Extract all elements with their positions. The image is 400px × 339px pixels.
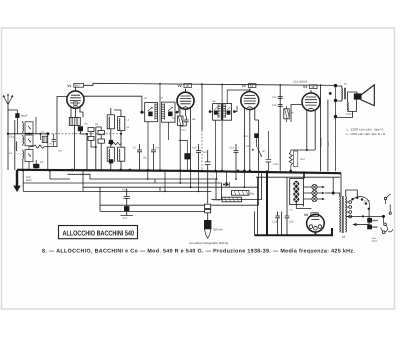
node dot x121 tuning (120, 133, 122, 135)
thick bottom line (255, 228, 333, 235)
svg-text:C19: C19 (289, 221, 294, 224)
svg-text:C14: C14 (244, 135, 249, 138)
node dot x72 bus (71, 169, 74, 172)
capacitor C16 (278, 105, 283, 107)
svg-text:inter.: inter. (372, 237, 377, 240)
wire secondary to voice coil (348, 92, 357, 111)
wire rail vertical x100 (99, 187, 101, 211)
svg-text:T1: T1 (344, 82, 348, 86)
node T2 right (233, 110, 236, 113)
selector lever (353, 197, 370, 209)
svg-text:C15: C15 (272, 96, 277, 99)
svg-text:V1: V1 (67, 84, 71, 88)
node T1 left (140, 111, 143, 114)
svg-text:78: 78 (186, 84, 190, 88)
capacitor C14 blob (255, 134, 259, 138)
wire T2 bottoms (215, 120, 217, 171)
capacitor stack C20 (124, 192, 130, 204)
svg-text:350 mA: 350 mA (213, 227, 223, 231)
svg-text:C18: C18 (273, 221, 278, 224)
wire coupling x268 (267, 131, 269, 172)
sub rail 4 (23, 190, 211, 192)
svg-text:gener.: gener. (372, 240, 378, 243)
wire x320 vertical (320, 85, 322, 171)
wire rail vertical x23 (22, 170, 24, 191)
wire C21 bottom stub (121, 215, 133, 217)
wire x335 vertical (335, 85, 337, 171)
voltage selector contacts (349, 201, 352, 204)
wire V2 screen (190, 116, 192, 170)
switch contact S2 (312, 190, 317, 195)
tube V1 6A7 (67, 91, 84, 108)
wire T1 center vertical (159, 84, 161, 170)
mains vertical x369 (368, 209, 370, 229)
switch arm volume (252, 149, 254, 151)
node dot 333/193 (332, 192, 335, 195)
node dot 335/85 (334, 84, 337, 87)
svg-text:T2: T2 (342, 235, 346, 239)
IF transformer T2 secondary (223, 104, 232, 121)
wire V4 pins (307, 109, 315, 150)
node dot x29 (28, 133, 30, 135)
tube V2 78 (177, 92, 194, 109)
oscillator coil box B (118, 117, 125, 131)
wire x281 vertical (281, 212, 283, 236)
lamp P1 (294, 181, 299, 186)
capacitor C2b (52, 134, 56, 146)
capacitor blob under V1 (78, 127, 82, 131)
label box ALLOCCHIO BACCHINI 540 (59, 226, 138, 239)
capacitor pair C18 (275, 212, 280, 236)
CAPTION-AREA (42, 226, 355, 255)
wire heater top (256, 176, 340, 178)
sub rail 5 right (211, 199, 261, 201)
power transformer T2 primary (339, 197, 342, 233)
svg-text:R12: R12 (301, 158, 306, 161)
svg-text:C13: C13 (230, 147, 235, 150)
wire V3 pins (244, 107, 258, 171)
svg-text:42: 42 (311, 85, 315, 89)
oscillator coil box C (107, 147, 114, 161)
svg-text:R13 300: R13 300 (320, 137, 323, 146)
sub rail 1 (50, 170, 216, 179)
IF transformer T1 box primary (145, 103, 158, 122)
trimmer T1a (149, 112, 153, 116)
capacitor stack C21 (124, 207, 129, 211)
resistor box under V1 (69, 117, 80, 125)
svg-text:L. 1350 con valv. tipo R.+G.: L. 1350 con valv. tipo R.+G. (347, 132, 387, 136)
switch mains lever (384, 223, 387, 226)
switch contact S3 (312, 196, 317, 201)
coil L2 band2 (25, 135, 33, 146)
wire T2 top links (333, 173, 357, 198)
svg-text:C11: C11 (182, 129, 187, 132)
wire V1 pins down (71, 106, 83, 118)
wire coil bottoms to bus (23, 133, 29, 170)
wire left drop x15 (14, 120, 16, 170)
switch top right (384, 197, 386, 199)
trimmer T1b (169, 112, 173, 116)
svg-text:V4: V4 (303, 85, 307, 89)
voltage selector arc dots (351, 198, 353, 200)
wire lamps left link (304, 187, 312, 199)
capacitor C1 antenna series (16, 114, 20, 118)
wire heater to V5 (296, 202, 311, 208)
IF transformer T2 primary (213, 104, 222, 121)
svg-text:0,5 M: 0,5 M (214, 199, 221, 202)
wire T2 top cap link (227, 90, 250, 104)
wire T1 bottoms (148, 122, 169, 171)
IF transformer T1 box secondary (162, 102, 176, 122)
capacitor C17 (266, 159, 272, 162)
capacitor mains 1 (368, 218, 372, 222)
antenna (3, 94, 12, 105)
resistor osc link zigzag (108, 142, 121, 144)
wire osc pins (111, 108, 121, 170)
svg-text:1 MΩ: 1 MΩ (273, 163, 279, 166)
resistor R10 hatched (232, 191, 250, 196)
svg-text:57: 57 (250, 84, 254, 88)
node dot x95 (95, 146, 97, 148)
wire grid V4 left (291, 105, 303, 123)
wire rail vertical x257 (258, 174, 262, 236)
wire x202 screen feed (201, 84, 203, 130)
node dots V2 (179, 169, 182, 172)
svg-text:6A7: 6A7 (75, 84, 81, 88)
svg-text:5000: 5000 (26, 179, 32, 182)
wire antenna down (7, 104, 9, 170)
wire pot feed vertical (207, 150, 209, 204)
trimmer T2b (227, 111, 230, 114)
sub rail 2 (23, 182, 221, 184)
wire V1 grid left drop (48, 97, 68, 147)
node dot x87 (86, 133, 88, 135)
lamp P2 (294, 186, 299, 191)
wire V1 grid cap link (75, 83, 141, 112)
svg-text:80: 80 (312, 213, 316, 217)
small coil C2a left (15, 142, 18, 152)
svg-text:C21: C21 (123, 217, 128, 220)
output transformer T1 secondary (347, 102, 350, 111)
capacitor mains 2 (368, 225, 372, 229)
node dot x47 big (46, 132, 49, 135)
rail jog 1 (154, 179, 156, 183)
capacitor C8 (151, 144, 156, 170)
wire x258 below bus (258, 173, 260, 205)
wire x254 up (254, 212, 256, 236)
node dots V3 (243, 170, 246, 173)
svg-text:4μμF: 4μμF (21, 114, 28, 118)
svg-text:Ria: Ria (250, 193, 254, 196)
svg-text:V5: V5 (304, 213, 308, 217)
switch contact S1 (312, 184, 317, 189)
wire rail vertical x83 (82, 171, 84, 192)
rail jog 2 (159, 187, 161, 191)
svg-text:C12: C12 (246, 145, 251, 148)
capacitor C15 (278, 97, 283, 99)
wire x87 down (86, 134, 88, 170)
resistor zigzag R1 (33, 145, 45, 148)
resistor box V4 cathode (289, 152, 292, 165)
svg-text:volt: volt (364, 202, 367, 205)
V5 anode pins (309, 225, 313, 229)
sub rail 3 (83, 186, 258, 188)
svg-text:C20: C20 (122, 189, 127, 192)
tube V5 80 (307, 214, 325, 232)
tube V4 42 (302, 93, 320, 111)
wire x327 vertical (327, 100, 329, 172)
plug terminal (389, 212, 391, 214)
wire zigzag drops (30, 134, 48, 170)
small resistors right of V1 (88, 128, 94, 132)
capacitor C7 (137, 144, 142, 170)
coil L3 band3 (25, 150, 33, 162)
node dots V4 (290, 170, 293, 173)
node T1 right (176, 111, 179, 114)
svg-text:C23 100000: C23 100000 (293, 81, 308, 84)
capacitor V2 cathode (180, 116, 188, 170)
capacitor C3 blob (34, 164, 40, 168)
oscillator coil box D (118, 147, 125, 161)
wire V5 to bottom (314, 232, 316, 236)
trimmer T2a (214, 111, 217, 114)
speaker horn (361, 85, 374, 106)
wire tuning line y134 (8, 133, 48, 135)
ground arrow (16, 170, 18, 186)
svg-text:V3: V3 (242, 84, 246, 88)
resistor box V2 cathode (178, 116, 184, 126)
svg-text:C1a: C1a (9, 136, 14, 139)
sub rail 6 left (100, 204, 259, 206)
node dots on bus osc (119, 169, 122, 172)
power transformer T2 secondary (345, 197, 348, 233)
wire x95 down (95, 127, 97, 170)
wire top plate rail (93, 83, 336, 85)
resistor R11 hatched (222, 197, 242, 202)
svg-text:C16: C16 (272, 104, 277, 107)
node dot 335/116 (334, 115, 337, 118)
wire rail stubs from bus (148, 171, 245, 192)
capacitor blob osc A (109, 140, 112, 143)
wire V2 pins (180, 107, 191, 116)
node dot 335/100 (334, 99, 337, 102)
ground bus main (thick) (17, 170, 341, 173)
node dot x40 (40, 133, 42, 135)
lamp P3 (294, 192, 299, 197)
coil L1 antenna primary (25, 122, 33, 133)
thick B+ vertical x267 (266, 172, 268, 235)
oscillator coil box A (107, 115, 114, 129)
svg-text:L.S.: L.S. (289, 208, 293, 211)
mains arrow left (356, 224, 369, 226)
capacitor pair C19 (285, 177, 290, 235)
lamp P4 (294, 197, 299, 202)
potentiometer volume body (205, 204, 211, 208)
capacitor C10 (196, 144, 201, 171)
capacitor C13 (234, 144, 239, 171)
wire T2 center vertical (221, 85, 223, 171)
capacitor blob osc B (109, 160, 112, 163)
svg-text:C10: C10 (192, 147, 197, 150)
tube V3 57 (241, 92, 259, 110)
capacitor V2 bypass blob (179, 140, 188, 153)
sub rail 7 left (100, 210, 205, 212)
node antenna junction (7, 133, 9, 135)
diode detector D1 (226, 182, 230, 187)
wire heater drop (303, 171, 305, 178)
wire AVC right x280 (279, 85, 281, 171)
wire x36 grid feed (35, 117, 37, 134)
wire S2 to node (325, 192, 333, 194)
svg-text:ALLOCCHIO BACCHINI 540: ALLOCCHIO BACCHINI 540 (63, 229, 135, 238)
wire contacts right arrows (317, 187, 322, 199)
svg-text:V2: V2 (178, 84, 182, 88)
svg-text:campo: campo (346, 113, 353, 116)
resistor box R9 (284, 109, 289, 119)
output transformer T1 primary (341, 88, 344, 100)
mains line y216 (346, 215, 384, 217)
band switch box S (42, 136, 47, 142)
power transformer T2 core (342, 196, 343, 233)
node T2 left (209, 110, 212, 113)
speaker voice coil (354, 94, 361, 99)
wire field coil return (336, 111, 353, 117)
svg-text:8. — ALLOCCHIO, BACCHINI e Co: 8. — ALLOCCHIO, BACCHINI e Co — Mod. 540… (42, 249, 355, 255)
node dot 330/93 (329, 92, 332, 95)
trimmer cluster between osc (98, 131, 104, 135)
wire rail vertical x216 (216, 179, 222, 200)
heater box outline (290, 179, 304, 205)
svg-text:con attacco fonografico (540 G: con attacco fonografico (540 G) (189, 241, 228, 245)
